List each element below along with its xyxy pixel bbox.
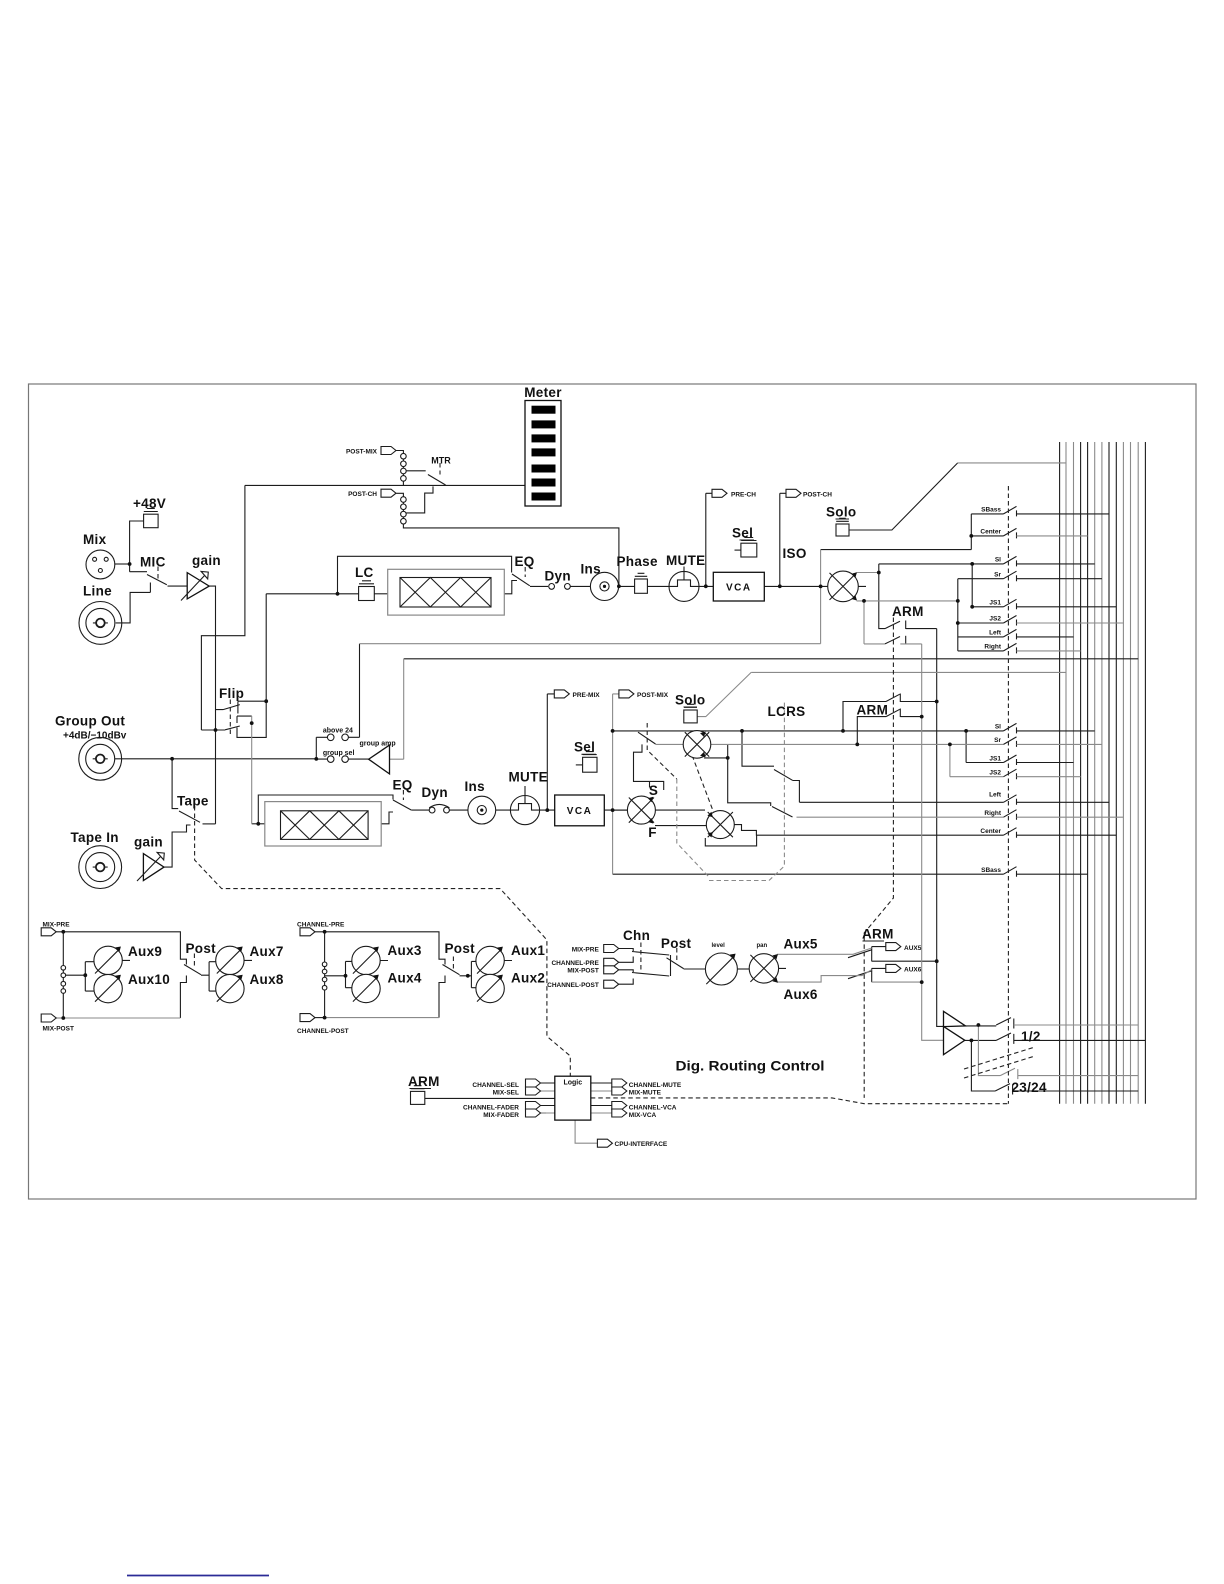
svg-text:LC: LC <box>355 565 374 580</box>
svg-text:group amp: group amp <box>360 741 396 748</box>
svg-text:Group Out: Group Out <box>55 714 125 729</box>
svg-text:23/24: 23/24 <box>1012 1080 1047 1095</box>
svg-text:+48V: +48V <box>133 496 166 511</box>
svg-text:gain: gain <box>134 835 163 850</box>
svg-text:CHANNEL-PRE: CHANNEL-PRE <box>297 922 345 929</box>
svg-text:MIX-PRE: MIX-PRE <box>43 922 71 929</box>
svg-text:Aux3: Aux3 <box>388 943 422 958</box>
svg-text:Flip: Flip <box>219 686 244 701</box>
svg-text:above 24: above 24 <box>323 728 353 735</box>
svg-text:Meter: Meter <box>524 385 562 400</box>
svg-text:MIX-POST: MIX-POST <box>43 1026 74 1033</box>
svg-text:Sel: Sel <box>574 740 595 755</box>
svg-text:Sl: Sl <box>995 724 1001 731</box>
svg-text:AUX6: AUX6 <box>904 967 922 974</box>
svg-text:JS2: JS2 <box>989 616 1001 623</box>
svg-text:Right: Right <box>984 810 1001 817</box>
svg-text:+4dB/−10dBv: +4dB/−10dBv <box>63 731 127 742</box>
svg-text:CHANNEL-MUTE: CHANNEL-MUTE <box>629 1082 682 1089</box>
svg-text:EQ: EQ <box>515 554 535 569</box>
svg-text:PRE-CH: PRE-CH <box>731 491 756 498</box>
svg-text:LCRS: LCRS <box>768 704 806 719</box>
svg-text:Sel: Sel <box>732 526 753 541</box>
svg-text:Sl: Sl <box>995 557 1001 564</box>
svg-text:POST-MIX: POST-MIX <box>637 692 669 699</box>
svg-text:MUTE: MUTE <box>509 770 548 785</box>
svg-text:Aux1: Aux1 <box>511 943 545 958</box>
svg-text:MIX-FADER: MIX-FADER <box>483 1112 519 1119</box>
svg-text:group sel: group sel <box>323 750 355 757</box>
svg-text:POST-CH: POST-CH <box>803 491 832 498</box>
svg-text:Logic: Logic <box>563 1080 582 1087</box>
svg-text:MIX-PRE: MIX-PRE <box>572 946 600 953</box>
svg-text:CHANNEL-VCA: CHANNEL-VCA <box>629 1104 677 1111</box>
svg-text:AUX5: AUX5 <box>904 945 922 952</box>
svg-text:Aux2: Aux2 <box>511 971 545 986</box>
svg-text:Center: Center <box>980 828 1001 835</box>
svg-text:CHANNEL-POST: CHANNEL-POST <box>547 982 599 989</box>
svg-text:ARM: ARM <box>857 703 889 718</box>
svg-text:Sr: Sr <box>994 737 1001 744</box>
svg-text:Post: Post <box>445 941 476 956</box>
svg-text:ARM: ARM <box>892 604 924 619</box>
svg-text:ARM: ARM <box>408 1074 440 1089</box>
svg-text:MIX-VCA: MIX-VCA <box>629 1112 657 1119</box>
svg-text:Aux6: Aux6 <box>784 987 818 1002</box>
svg-text:Mix: Mix <box>83 532 107 547</box>
svg-text:Dig. Routing Control: Dig. Routing Control <box>676 1058 825 1074</box>
svg-text:POST-MIX: POST-MIX <box>346 449 378 456</box>
svg-text:ISO: ISO <box>783 546 807 561</box>
svg-text:Solo: Solo <box>675 693 705 708</box>
svg-text:gain: gain <box>192 553 221 568</box>
svg-text:Aux5: Aux5 <box>784 937 818 952</box>
svg-text:EQ: EQ <box>393 778 413 793</box>
svg-text:Aux10: Aux10 <box>128 972 170 987</box>
svg-text:Post: Post <box>186 941 217 956</box>
svg-text:Post: Post <box>661 936 692 951</box>
svg-text:level: level <box>712 943 726 949</box>
svg-text:MUTE: MUTE <box>666 553 705 568</box>
svg-text:Ins: Ins <box>581 562 601 577</box>
svg-text:Line: Line <box>83 584 112 599</box>
svg-text:Solo: Solo <box>826 505 856 520</box>
svg-text:Tape In: Tape In <box>71 830 119 845</box>
svg-text:Sr: Sr <box>994 572 1001 579</box>
svg-text:MIC: MIC <box>140 555 166 570</box>
svg-text:Aux7: Aux7 <box>250 944 284 959</box>
svg-text:JS2: JS2 <box>989 770 1001 777</box>
svg-text:CPU-INTERFACE: CPU-INTERFACE <box>615 1141 668 1148</box>
svg-text:CHANNEL-POST: CHANNEL-POST <box>297 1028 349 1035</box>
svg-text:pan: pan <box>757 943 768 949</box>
svg-text:JS1: JS1 <box>989 600 1001 607</box>
svg-text:CHANNEL-FADER: CHANNEL-FADER <box>463 1104 519 1111</box>
svg-text:Right: Right <box>984 644 1001 651</box>
svg-text:Phase: Phase <box>617 554 658 569</box>
svg-text:F: F <box>648 825 657 840</box>
svg-text:Tape: Tape <box>177 794 209 809</box>
svg-text:SBass: SBass <box>981 867 1001 874</box>
svg-text:MIX-POST: MIX-POST <box>567 968 598 975</box>
svg-text:POST-CH: POST-CH <box>348 491 377 498</box>
svg-text:Aux8: Aux8 <box>250 972 284 987</box>
svg-text:Left: Left <box>989 630 1002 637</box>
svg-text:PRE-MIX: PRE-MIX <box>573 692 601 699</box>
svg-text:ARM: ARM <box>862 927 894 942</box>
svg-text:Aux4: Aux4 <box>388 971 422 986</box>
svg-text:S: S <box>649 783 658 798</box>
svg-text:1/2: 1/2 <box>1021 1029 1041 1044</box>
svg-text:SBass: SBass <box>981 507 1001 514</box>
svg-text:Chn: Chn <box>623 928 650 943</box>
svg-text:VCA: VCA <box>567 806 593 817</box>
svg-text:Dyn: Dyn <box>545 569 571 584</box>
svg-text:Left: Left <box>989 792 1002 799</box>
svg-text:VCA: VCA <box>726 582 752 593</box>
svg-text:CHANNEL-PRE: CHANNEL-PRE <box>551 960 599 967</box>
svg-text:JS1: JS1 <box>989 756 1001 763</box>
svg-text:MIX-MUTE: MIX-MUTE <box>629 1090 662 1097</box>
svg-text:MTR: MTR <box>431 456 451 466</box>
svg-text:Aux9: Aux9 <box>128 944 162 959</box>
svg-text:Center: Center <box>980 529 1001 536</box>
svg-text:Ins: Ins <box>465 779 485 794</box>
svg-text:MIX-SEL: MIX-SEL <box>493 1090 519 1097</box>
svg-text:CHANNEL-SEL: CHANNEL-SEL <box>472 1082 519 1089</box>
svg-text:Dyn: Dyn <box>422 785 448 800</box>
